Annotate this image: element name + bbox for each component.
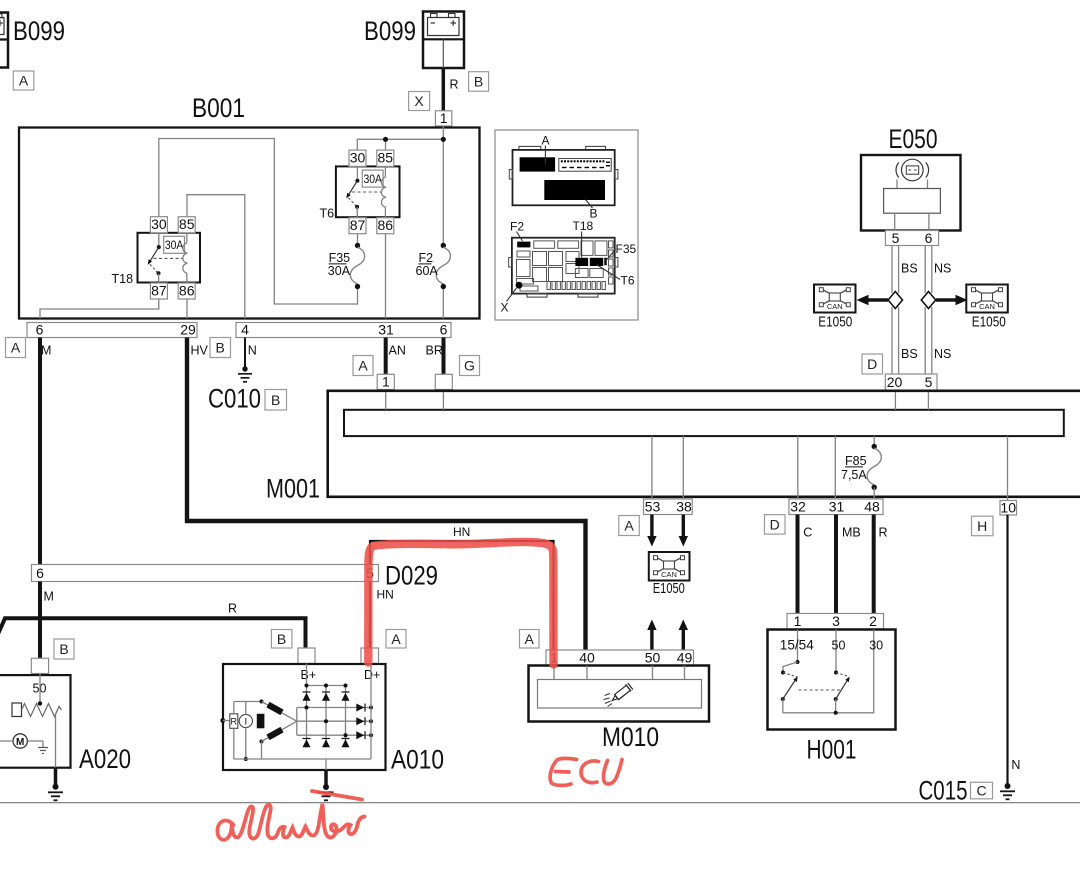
svg-text:E1050: E1050 (653, 580, 685, 597)
svg-text:HN: HN (453, 525, 470, 539)
svg-text:E050: E050 (889, 124, 938, 154)
node A (B099 left connector label) (13, 71, 34, 90)
svg-text:A020: A020 (79, 744, 131, 774)
svg-text:6: 6 (440, 322, 448, 338)
svg-text:1: 1 (382, 374, 390, 390)
svg-text:29: 29 (180, 322, 196, 338)
svg-text:B+: B+ (301, 668, 317, 682)
svg-text:15/54: 15/54 (780, 638, 814, 653)
svg-text:B: B (277, 631, 286, 647)
svg-text:R: R (231, 716, 238, 726)
svg-text:D+: D+ (364, 668, 380, 682)
wire R (to A010 B+) (0, 618, 306, 648)
ground C015 (919, 776, 1016, 806)
wire N (M001 pin 10 to ground) (1006, 515, 1008, 785)
svg-text:F35: F35 (329, 251, 351, 265)
svg-text:A: A (624, 518, 634, 534)
ignition switch H001 (768, 630, 896, 765)
svg-text:B: B (271, 392, 280, 408)
svg-text:50: 50 (645, 649, 661, 665)
wire AN (pin 31 down) (384, 338, 388, 375)
arrow to left E1050 (857, 295, 889, 306)
node A (label at AN wire) (353, 356, 373, 376)
svg-text:A: A (542, 134, 550, 148)
relay T18 (138, 216, 201, 299)
engine ECU M010 (529, 666, 710, 753)
node G (label at BR wire) (460, 356, 480, 376)
connector (A010 B+ pin) (298, 648, 315, 664)
wire N (pin 4 to ground) (244, 338, 246, 368)
svg-text:T18: T18 (573, 219, 594, 233)
svg-text:M: M (41, 344, 51, 358)
svg-text:NS: NS (934, 347, 951, 361)
svg-text:X: X (414, 93, 424, 109)
connector (A020 pin) (31, 658, 48, 673)
injector icon (M010) (604, 683, 634, 707)
fuse F35 30A (328, 243, 365, 289)
relay T6 (336, 150, 400, 234)
svg-text:53: 53 (645, 499, 661, 515)
wire (pin1 to bus) (385, 392, 387, 410)
svg-text:C: C (803, 526, 812, 540)
fuse box illustration (B001 pictorial) (495, 130, 638, 320)
wire (A010 to ground) (324, 770, 328, 786)
wire (F2 to pin 6 BR) (442, 287, 444, 319)
wire (bus to pin 53) (651, 436, 653, 499)
svg-text:T18: T18 (112, 272, 134, 286)
wire NS (CAN pair) (925, 246, 932, 375)
svg-text:20: 20 (887, 374, 903, 390)
ground bus line (0, 802, 1080, 804)
fuse F85 7,5A (841, 444, 881, 490)
svg-text:N: N (248, 344, 257, 358)
svg-text:6: 6 (925, 230, 933, 246)
svg-text:E1050: E1050 (818, 314, 852, 331)
node D (label at 32/31/48) (765, 515, 786, 535)
red annotation ECU (550, 758, 622, 785)
svg-text:M010: M010 (602, 722, 659, 752)
CAN node E1050 (right) (966, 285, 1008, 331)
E050 pin strip (5,6) (885, 230, 938, 246)
wire (feed to T6 pins 30/85) (357, 139, 443, 150)
svg-text:87: 87 (151, 283, 167, 299)
svg-text:5: 5 (892, 230, 900, 246)
wire HN (D029/A010 D+ to M010 pin 1) (370, 541, 554, 650)
fuse box B001 (19, 93, 480, 319)
svg-text:86: 86 (179, 283, 195, 299)
svg-text:MB: MB (842, 526, 861, 540)
svg-text:T6: T6 (621, 274, 635, 288)
svg-text:F2: F2 (510, 220, 524, 234)
svg-text:A: A (358, 358, 368, 374)
node B (battery connector label) (469, 72, 489, 92)
node B (label at A010 B+) (271, 630, 292, 649)
wire R (battery to pin 1) (442, 68, 446, 111)
svg-text:I: I (244, 717, 247, 728)
svg-text:A: A (391, 631, 401, 647)
node B (label at A020) (54, 639, 74, 659)
svg-text:X: X (501, 301, 509, 315)
svg-text:HV: HV (191, 344, 209, 358)
svg-text:C010: C010 (208, 384, 261, 414)
svg-text:A: A (11, 340, 21, 356)
wire (pin5 to bus) (927, 392, 929, 410)
wire (pin20 to bus) (894, 392, 896, 410)
arrow wire (pin 38 to CAN) (679, 515, 688, 547)
svg-text:30A: 30A (363, 172, 382, 186)
wire (bus to F85) (873, 436, 875, 446)
connector (A010 D+ pin) (361, 648, 379, 664)
wire (F85 to pin 48) (873, 487, 875, 499)
wire (T18 pin87 to pin 6) (40, 299, 159, 319)
wire M (D029 to A020) (38, 582, 42, 659)
svg-text:A: A (525, 631, 535, 647)
node X (fusebox connector label) (409, 92, 430, 111)
node H (label at pin 10) (972, 516, 994, 536)
CAN node E1050 (left) (814, 285, 856, 331)
svg-text:H: H (977, 518, 987, 534)
wire BR (pin 6 down) (442, 338, 446, 375)
alternator A010 (223, 664, 444, 775)
junction (441, 137, 446, 142)
pin strip 20,5 (into M001) (885, 374, 937, 391)
svg-text:85: 85 (378, 150, 394, 166)
pin 1 (AN into M001) (377, 374, 394, 390)
wire (A020 to ground) (54, 768, 58, 785)
svg-text:HN: HN (377, 588, 394, 602)
wire (bus to pin 10) (1007, 436, 1009, 501)
wire R (M001 pin 48 to H001 pin 2) (872, 515, 876, 614)
wire BS (CAN pair) (892, 246, 899, 375)
svg-text:30: 30 (151, 216, 167, 232)
wire (T18 pin30 to F35 bottom) (159, 139, 358, 305)
red annotation alternator (217, 791, 364, 840)
svg-text:30A: 30A (165, 238, 184, 252)
svg-text:T6: T6 (320, 207, 335, 221)
svg-text:60A: 60A (416, 264, 439, 278)
svg-text:40: 40 (579, 649, 595, 665)
ground (A010) (319, 784, 334, 800)
node C010 (208, 384, 287, 414)
svg-text:D: D (867, 356, 877, 372)
wire (T6 pin87 to F35) (357, 234, 359, 246)
svg-text:30A: 30A (328, 264, 351, 278)
wire (G conn to bus) (442, 392, 444, 410)
svg-text:7,5A: 7,5A (841, 468, 867, 482)
svg-text:30: 30 (350, 150, 366, 166)
wire MB (M001 pin 31 to H001 pin 3) (834, 515, 838, 614)
svg-text:H001: H001 (807, 735, 857, 765)
arrow to right E1050 (936, 295, 968, 306)
svg-text:38: 38 (676, 499, 692, 515)
svg-text:B: B (474, 74, 483, 90)
svg-text:B099: B099 (13, 16, 65, 46)
svg-text:D: D (770, 517, 780, 533)
wire (bus to pin 32) (797, 436, 799, 499)
svg-text:6: 6 (36, 565, 44, 581)
wire HV (pin 29 to M010 pin 40) (187, 338, 586, 651)
svg-text:1: 1 (794, 613, 802, 629)
svg-text:G: G (464, 358, 475, 374)
svg-text:B001: B001 (192, 93, 245, 123)
starter motor A020 (0, 674, 131, 775)
svg-text:1: 1 (440, 110, 448, 126)
ground (A020) (48, 784, 63, 801)
junction diamond (BS) (888, 292, 902, 309)
wire (battery feed inside B001 to F2) (442, 126, 444, 246)
svg-text:R: R (450, 78, 459, 92)
red highlight wire (D+ to ECU pin 1) (368, 542, 553, 665)
svg-text:A010: A010 (391, 745, 444, 775)
svg-text:B: B (59, 641, 68, 657)
svg-text:6: 6 (36, 322, 44, 338)
svg-text:31: 31 (829, 499, 845, 515)
CAN node E1050 (middle) (649, 552, 690, 597)
node C (label at C015) (971, 782, 993, 799)
connector D029 (32, 561, 439, 591)
svg-text:30: 30 (869, 639, 883, 653)
wire (T18 pin85 to pin 4) (187, 195, 245, 319)
body computer M001 (266, 391, 1080, 504)
wire (bus to pin 31) (834, 436, 836, 499)
node A (label at 53/38) (619, 516, 640, 536)
svg-text:N: N (1011, 758, 1020, 772)
node B (label below pin 4) (210, 338, 231, 358)
svg-text:86: 86 (378, 217, 394, 233)
H001 pin strip (1,3,2) (787, 613, 884, 629)
svg-text:BS: BS (901, 262, 918, 276)
arrow wire (pin 53 to CAN) (647, 515, 656, 547)
svg-text:3: 3 (832, 613, 840, 629)
svg-text:R: R (228, 602, 237, 616)
svg-text:M: M (44, 590, 54, 604)
wire M (pin 6 down) (38, 338, 42, 565)
svg-text:AN: AN (389, 344, 406, 358)
battery B099 (top-center) (364, 12, 464, 69)
svg-text:BS: BS (901, 347, 918, 361)
svg-text:M: M (16, 737, 24, 748)
svg-text:E1050: E1050 (972, 314, 1006, 331)
M001 pin 10 (1000, 500, 1017, 516)
svg-text:10: 10 (1000, 500, 1016, 516)
generator control unit E050 (861, 124, 961, 231)
svg-text:C: C (976, 783, 986, 799)
svg-text:A: A (19, 73, 29, 89)
wire (bus to pin 38) (682, 436, 684, 499)
svg-text:BR: BR (426, 344, 443, 358)
svg-text:F35: F35 (616, 242, 637, 256)
fuse F2 60A (416, 243, 451, 289)
junction diamond (NS) (921, 292, 935, 309)
svg-text:4: 4 (241, 322, 249, 338)
ground (C010) (238, 366, 252, 382)
alternator internals (220, 664, 373, 771)
svg-text:31: 31 (378, 322, 394, 338)
wire (T6 pin86 to pin 31) (385, 234, 387, 319)
wire C (M001 pin 32 to H001 pin 1) (796, 515, 800, 614)
svg-text:B099: B099 (364, 16, 416, 46)
junction (383, 137, 388, 142)
M010 pin strip (1,40,50,49) (546, 649, 694, 665)
battery B099 (partial, top-left) (0, 13, 65, 68)
svg-text:NS: NS (934, 262, 951, 276)
svg-text:49: 49 (677, 649, 693, 665)
arrow wire (M010 pin 49 up) (679, 620, 688, 651)
connector (BR into M001) (435, 374, 452, 389)
svg-text:50: 50 (832, 639, 846, 653)
B001 bottom connector strip (pins 6,29) (27, 322, 197, 338)
node A (label at A010 D+) (386, 630, 406, 649)
H001 internals (780, 630, 883, 715)
svg-text:87: 87 (350, 217, 366, 233)
svg-text:C015: C015 (919, 776, 968, 806)
M001 pin strip (32,31,48) (789, 499, 883, 515)
svg-text:48: 48 (864, 499, 880, 515)
node A (label at M010 pin 1) (520, 630, 540, 649)
svg-text:85: 85 (179, 216, 195, 232)
M001 pin strip (53,38) (644, 499, 693, 515)
svg-text:R: R (879, 526, 888, 540)
svg-text:F85: F85 (845, 454, 867, 468)
pin 1 (battery feed into B001) (435, 110, 451, 126)
svg-text:32: 32 (790, 499, 806, 515)
B001 bottom connector strip (pins 4,31,6) (236, 322, 451, 338)
wire (T18 pin86 to pin 29) (186, 299, 188, 319)
node A (label below pin 6) (6, 338, 26, 358)
svg-text:F2: F2 (419, 251, 434, 265)
svg-text:M001: M001 (266, 474, 320, 504)
arrow wire (M010 pin 50 up) (647, 620, 656, 651)
svg-text:5: 5 (925, 374, 933, 390)
svg-text:D029: D029 (385, 561, 438, 591)
svg-text:B: B (216, 340, 225, 356)
node D (label at 20/5 strip) (862, 354, 883, 374)
svg-text:2: 2 (869, 613, 877, 629)
